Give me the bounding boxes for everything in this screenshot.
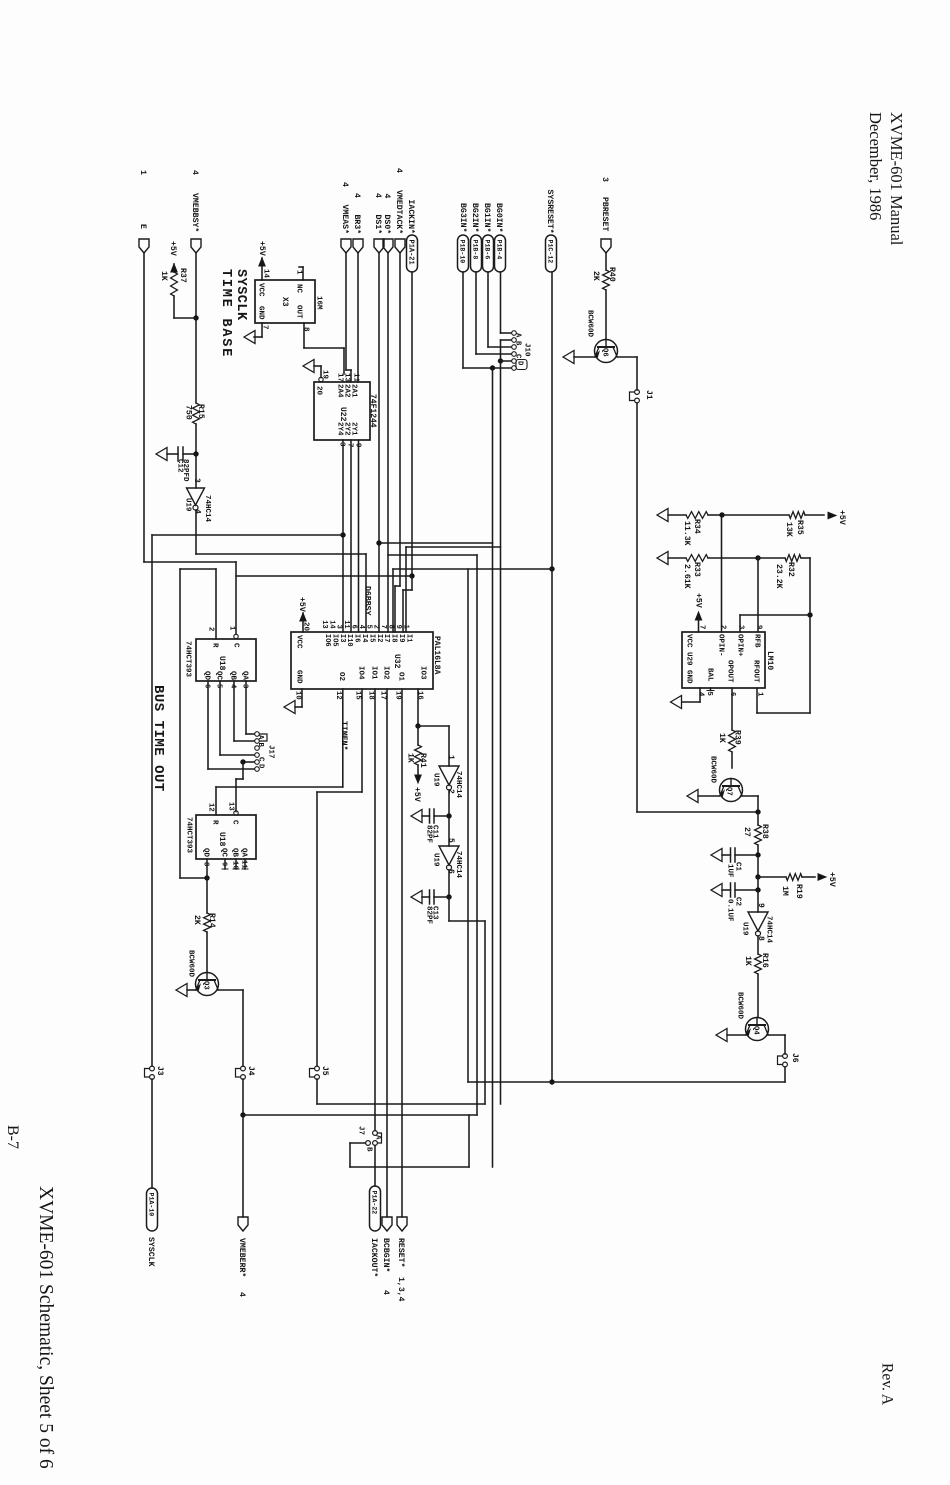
- svg-text:9: 9: [219, 862, 227, 866]
- svg-text:18: 18: [366, 691, 374, 700]
- svg-text:P1A-21: P1A-21: [407, 240, 415, 265]
- terminal PBRESET: [600, 177, 611, 253]
- U18 lower clock bubble: [234, 811, 238, 815]
- wire C1 node down: [756, 855, 761, 880]
- svg-text:R: R: [210, 643, 218, 648]
- svg-text:U18: U18: [217, 832, 226, 847]
- ground for R34: [657, 509, 668, 522]
- svg-text:+5V: +5V: [837, 510, 846, 525]
- wire U32 IO3 to R41: [416, 689, 450, 766]
- svg-text:A: A: [256, 735, 264, 740]
- svg-text:2: 2: [206, 627, 214, 631]
- svg-text:74HC14: 74HC14: [454, 771, 462, 799]
- svg-text:4: 4: [381, 1290, 390, 1295]
- svg-text:U18: U18: [217, 656, 226, 671]
- svg-text:GND: GND: [684, 670, 692, 684]
- svg-text:10: 10: [293, 691, 301, 700]
- wire Q4 to J6: [768, 1035, 785, 1054]
- wire J10 row B to row D chain: [498, 340, 511, 1104]
- svg-text:+5V: +5V: [168, 241, 177, 256]
- wire Q6 to J1: [618, 357, 638, 390]
- terminal SYSRESET* with connector P1C-12: [545, 190, 557, 273]
- svg-text:QA: QA: [239, 848, 247, 858]
- resistor R33 2.61K: [668, 555, 761, 589]
- svg-text:TIME BASE: TIME BASE: [218, 269, 233, 358]
- svg-text:R16: R16: [760, 953, 769, 968]
- terminal VMEDTACK*: [394, 168, 405, 253]
- svg-text:QB: QB: [228, 671, 236, 681]
- wire U18 upper reset loop: [180, 569, 216, 881]
- svg-text:4: 4: [373, 193, 382, 198]
- wire J10 chain down to U32: [377, 368, 501, 1167]
- svg-text:I1: I1: [404, 634, 412, 642]
- svg-text:J4: J4: [246, 1066, 255, 1076]
- ground for C12: [156, 448, 167, 461]
- svg-text:P1B-6: P1B-6: [484, 240, 491, 260]
- svg-text:R: R: [210, 820, 218, 825]
- power +5V right of R35: [828, 510, 846, 525]
- svg-text:VCC: VCC: [684, 634, 692, 648]
- svg-text:U19: U19: [183, 498, 191, 512]
- svg-text:2K: 2K: [192, 915, 201, 925]
- svg-text:GND: GND: [256, 306, 264, 320]
- power +5V for U29: [694, 593, 703, 632]
- U18 upper pin numbers: [202, 626, 248, 689]
- svg-text:3: 3: [337, 442, 345, 447]
- svg-text:+5V: +5V: [412, 787, 421, 802]
- wire SYSRESET* down: [550, 272, 555, 1085]
- svg-text:OPOUT: OPOUT: [725, 660, 733, 683]
- svg-text:RFOUT: RFOUT: [751, 660, 759, 683]
- U32 bottom pins: [293, 666, 426, 700]
- svg-text:A: A: [373, 1135, 381, 1140]
- svg-text:4: 4: [382, 194, 391, 199]
- title BUS TIME OUT: [150, 685, 166, 792]
- svg-text:I10: I10: [345, 634, 353, 647]
- capacitor C13 82PF: [422, 890, 449, 925]
- svg-text:6: 6: [202, 684, 210, 688]
- svg-text:J17: J17: [266, 745, 274, 759]
- wire VMEAS* to U22: [346, 253, 351, 382]
- jumper J6: [778, 1053, 800, 1067]
- terminal BR3*: [352, 193, 363, 253]
- wire U22 2Y1 to U32: [358, 440, 360, 632]
- terminal BG2IN* with connector P1B-8: [470, 203, 482, 272]
- ground for Q6: [563, 351, 596, 364]
- svg-text:GND: GND: [294, 670, 302, 684]
- svg-text:B: B: [364, 1147, 372, 1152]
- svg-text:P1B-4: P1B-4: [496, 240, 503, 260]
- svg-text:XVME-601 Manual: XVME-601 Manual: [887, 112, 906, 246]
- inverter U19a 74HC14: [183, 478, 211, 523]
- wire J17 tap to U18 lower clock: [236, 760, 254, 812]
- op-amp U29 LM10: [682, 632, 774, 688]
- page header: manual title: [866, 112, 906, 246]
- page caption: sheet title: [35, 1186, 56, 1469]
- svg-text:C: C: [256, 757, 264, 762]
- svg-text:I5: I5: [367, 634, 375, 642]
- svg-text:Rev. A: Rev. A: [878, 1363, 895, 1406]
- svg-text:QC: QC: [214, 671, 222, 681]
- U22 output pin numbers: [337, 442, 361, 448]
- svg-text:QB: QB: [230, 848, 238, 858]
- svg-text:2.61K: 2.61K: [682, 564, 691, 589]
- svg-text:2Y2: 2Y2: [342, 422, 350, 436]
- svg-text:DS0*: DS0*: [382, 215, 392, 235]
- svg-text:5: 5: [446, 838, 455, 843]
- resistor R15 750: [184, 403, 206, 488]
- wire U32 IO1 to J7: [374, 689, 376, 1131]
- svg-text:13: 13: [342, 373, 350, 383]
- svg-text:7: 7: [345, 443, 353, 448]
- svg-text:SYSCLK: SYSCLK: [233, 269, 248, 321]
- capacitor C2 0.1UF: [722, 877, 761, 922]
- svg-text:20: 20: [314, 386, 322, 396]
- svg-text:BCW60D: BCW60D: [708, 756, 716, 784]
- power +5V for R37: [168, 241, 177, 272]
- terminal BG0IN* with connector P1B-4: [494, 203, 506, 272]
- svg-text:SYSRESET*: SYSRESET*: [545, 190, 555, 234]
- X3 pin 8 output wire: [301, 323, 344, 374]
- svg-text:TIMEN*: TIMEN*: [339, 721, 349, 751]
- terminal IACKIN* with connector P1A-21: [406, 200, 418, 273]
- svg-text:16: 16: [415, 691, 423, 700]
- jumper J5: [310, 1066, 330, 1079]
- svg-text:BCW60D: BCW60D: [186, 950, 194, 978]
- svg-text:R33: R33: [692, 562, 701, 577]
- svg-text:2A1: 2A1: [349, 384, 357, 398]
- svg-text:74F1244: 74F1244: [368, 394, 377, 428]
- U29 BAL stub: [707, 688, 714, 691]
- terminal DS1*: [373, 193, 384, 253]
- jumper block J17: [255, 732, 275, 772]
- terminal VMEAS*: [340, 182, 351, 253]
- svg-text:17: 17: [378, 691, 386, 700]
- svg-text:NC: NC: [294, 284, 302, 294]
- U32 GND pin ground: [284, 689, 302, 714]
- svg-text:E: E: [138, 224, 147, 229]
- svg-text:VMEBERR*: VMEBERR*: [237, 1238, 247, 1277]
- wire reset branch down: [468, 569, 552, 1082]
- wire QC to J17: [220, 681, 254, 755]
- wire DS1* to U32: [378, 253, 380, 632]
- svg-text:IO3: IO3: [418, 666, 426, 680]
- svg-text:15: 15: [353, 691, 361, 700]
- ground for C1: [711, 849, 722, 862]
- wire QA to J17: [246, 681, 254, 734]
- wire RFB node: [757, 558, 759, 632]
- svg-text:December, 1986: December, 1986: [866, 112, 885, 220]
- svg-text:74HCT393: 74HCT393: [184, 817, 192, 854]
- buffer U22 74F1244: [314, 382, 377, 440]
- svg-text:+5V: +5V: [257, 241, 266, 256]
- svg-text:IO5: IO5: [330, 634, 338, 647]
- U32 pin 20 +5V: [297, 597, 309, 632]
- svg-text:R14: R14: [207, 913, 216, 928]
- svg-text:R37: R37: [178, 268, 187, 283]
- svg-text:16M: 16M: [314, 296, 322, 310]
- svg-text:RFB: RFB: [752, 634, 760, 648]
- svg-text:I6: I6: [353, 634, 361, 642]
- U18 upper clock bubble: [234, 634, 238, 638]
- svg-text:Q3: Q3: [201, 981, 209, 990]
- svg-text:9: 9: [394, 625, 402, 629]
- svg-text:4: 4: [190, 170, 199, 175]
- wire DS0* to U32: [387, 253, 389, 632]
- svg-text:750: 750: [184, 405, 193, 420]
- svg-text:VMEAS*: VMEAS*: [340, 205, 350, 235]
- svg-text:U32: U32: [392, 654, 401, 669]
- svg-text:BG0IN*: BG0IN*: [494, 203, 504, 233]
- wire J6 to SYSRESET line: [552, 1067, 785, 1082]
- power +5V for X3: [257, 241, 269, 280]
- svg-text:13: 13: [320, 620, 328, 628]
- wire BG1IN* to J10: [488, 272, 511, 347]
- ground for R33: [657, 552, 668, 565]
- wire inverter to C11 node: [447, 790, 452, 819]
- svg-text:OPIN-: OPIN-: [716, 634, 724, 657]
- svg-text:J5: J5: [320, 1066, 329, 1076]
- wire QB to J17: [234, 681, 254, 741]
- svg-text:1UF: 1UF: [725, 864, 733, 878]
- oscillator X3 16M: [255, 280, 322, 323]
- wire QD lower to R14: [206, 859, 208, 913]
- capacitor C11 82PF: [422, 809, 449, 844]
- svg-text:R38: R38: [760, 824, 769, 839]
- ground for C13: [411, 891, 422, 904]
- svg-text:1K: 1K: [717, 733, 726, 743]
- svg-text:6: 6: [350, 625, 358, 629]
- svg-text:14: 14: [261, 269, 269, 279]
- resistor R14 2K: [192, 913, 216, 972]
- svg-text:4: 4: [340, 182, 349, 187]
- wire C13 node to J5 line: [449, 897, 485, 1104]
- svg-text:OPIN+: OPIN+: [735, 634, 743, 657]
- svg-text:BG2IN*: BG2IN*: [470, 203, 480, 233]
- svg-text:BG1IN*: BG1IN*: [482, 203, 492, 233]
- svg-text:J7: J7: [356, 1126, 364, 1135]
- wire R34 node to OPIN-: [721, 515, 723, 632]
- svg-text:+5V: +5V: [694, 593, 703, 608]
- svg-text:2Y4: 2Y4: [335, 422, 343, 436]
- svg-text:7: 7: [379, 625, 387, 629]
- svg-text:I2: I2: [375, 634, 383, 642]
- svg-text:IO4: IO4: [356, 666, 364, 680]
- svg-text:C2: C2: [733, 897, 741, 907]
- svg-text:8: 8: [387, 625, 395, 629]
- ground for Q7: [687, 790, 719, 803]
- wire QD to J17: [208, 681, 254, 769]
- jumper J4: [236, 1066, 256, 1079]
- svg-text:8: 8: [301, 327, 309, 332]
- wire BR3* to U22: [357, 253, 359, 382]
- counter U18 74HCT393 upper: [183, 639, 256, 681]
- wire U32 pin1 feedback: [236, 575, 412, 577]
- svg-text:P1B-10: P1B-10: [459, 240, 466, 264]
- wire VMEDTACK* to U32: [395, 253, 400, 632]
- page footer: revision: [878, 1363, 895, 1406]
- node E terminal: [138, 170, 149, 253]
- svg-text:4: 4: [237, 1292, 246, 1297]
- PAL U32 PAL16L8A: [291, 632, 441, 689]
- power +5V below R41: [412, 775, 421, 802]
- wire J7 to P1A-22: [374, 1146, 376, 1187]
- svg-text:I8: I8: [390, 634, 398, 642]
- svg-text:I7: I7: [382, 634, 390, 642]
- svg-text:82PF: 82PF: [424, 906, 432, 925]
- svg-text:2: 2: [446, 789, 455, 794]
- page number B-7: [4, 1125, 21, 1149]
- resistor R41 1K: [406, 726, 428, 774]
- svg-text:U29: U29: [684, 652, 692, 666]
- svg-text:QC: QC: [219, 848, 227, 858]
- jumper J1: [630, 390, 654, 403]
- svg-text:IACKOUT*: IACKOUT*: [369, 1238, 379, 1277]
- svg-text:2Y1: 2Y1: [349, 422, 357, 436]
- svg-text:27: 27: [742, 827, 751, 837]
- svg-text:BAL: BAL: [705, 668, 713, 682]
- svg-text:3: 3: [600, 177, 609, 182]
- U32 top pin labels: [320, 620, 413, 646]
- svg-text:1K: 1K: [743, 956, 752, 966]
- inverter U19c 74HC14: [431, 816, 462, 879]
- U22 pin 19 enable ground: [303, 360, 328, 382]
- capacitor C1 1UF: [722, 848, 758, 878]
- svg-text:QD: QD: [202, 671, 210, 681]
- svg-text:BCW60D: BCW60D: [585, 310, 593, 338]
- ground for C11: [411, 810, 422, 823]
- svg-text:R35: R35: [795, 520, 804, 535]
- jumper J7: [356, 1126, 381, 1152]
- svg-text:82PF: 82PF: [424, 825, 432, 844]
- svg-text:IO2: IO2: [381, 666, 389, 680]
- svg-text:2A2: 2A2: [342, 384, 350, 398]
- wire SYSRESET* branch to U32: [393, 569, 552, 632]
- resistor R37 1K: [159, 268, 196, 318]
- svg-text:B: B: [256, 743, 264, 748]
- wire D6BBSY net: [196, 510, 372, 632]
- resistor R38 27: [742, 812, 769, 858]
- U29 pin numbers: [696, 625, 762, 697]
- svg-text:D6BBSY: D6BBSY: [363, 586, 372, 616]
- svg-text:QA: QA: [240, 671, 248, 681]
- svg-text:R15: R15: [196, 404, 205, 419]
- svg-text:11: 11: [342, 620, 350, 628]
- svg-text:PAL16L8A: PAL16L8A: [432, 636, 441, 675]
- U18 lower nc stubs: [222, 859, 248, 869]
- connector P1A-10 SYSCLK: [146, 1188, 158, 1267]
- svg-text:4: 4: [352, 193, 361, 198]
- svg-text:9: 9: [754, 625, 762, 629]
- terminal RESET*: [396, 1217, 407, 1302]
- wire TIMEN*: [216, 689, 349, 815]
- svg-text:11: 11: [351, 373, 359, 383]
- svg-text:5: 5: [705, 692, 713, 696]
- ground for Q3: [176, 984, 196, 997]
- svg-text:B: B: [513, 341, 521, 346]
- svg-text:74HC14: 74HC14: [454, 851, 462, 879]
- svg-text:P1B-8: P1B-8: [472, 240, 479, 260]
- svg-text:23.2K: 23.2K: [774, 564, 783, 589]
- svg-text:U19: U19: [740, 922, 748, 936]
- svg-text:3: 3: [736, 625, 744, 629]
- svg-text:+5V: +5V: [297, 597, 306, 612]
- svg-text:2: 2: [372, 625, 380, 629]
- svg-text:RESET*: RESET*: [396, 1238, 406, 1268]
- wire Q7 to R38 node: [741, 796, 758, 812]
- svg-text:17: 17: [335, 373, 343, 382]
- svg-text:R41: R41: [418, 753, 427, 768]
- svg-text:C1: C1: [733, 862, 741, 872]
- svg-text:82PFD: 82PFD: [181, 459, 189, 482]
- resistor R35 13K: [722, 512, 824, 537]
- svg-text:5: 5: [214, 684, 222, 688]
- resistor R16 1K: [743, 936, 769, 1017]
- svg-text:1: 1: [401, 625, 409, 629]
- svg-text:O1: O1: [396, 672, 404, 682]
- jumper J3: [145, 1066, 165, 1079]
- svg-text:R32: R32: [786, 562, 795, 577]
- svg-text:BCW60D: BCW60D: [735, 992, 743, 1020]
- inverter U19b 74HC14: [431, 755, 462, 799]
- resistor R39 1K: [717, 688, 742, 768]
- svg-text:3: 3: [192, 478, 201, 483]
- svg-text:3: 3: [240, 684, 248, 688]
- wire J4 loop to J7: [243, 1115, 477, 1167]
- svg-text:P1A-22: P1A-22: [371, 1191, 378, 1215]
- svg-text:7: 7: [697, 625, 705, 629]
- svg-text:J1: J1: [644, 390, 653, 400]
- svg-text:VCC: VCC: [294, 635, 302, 649]
- svg-text:Q4: Q4: [751, 1026, 759, 1035]
- svg-text:9: 9: [756, 903, 765, 908]
- svg-text:10: 10: [230, 861, 238, 870]
- svg-text:D: D: [256, 764, 264, 769]
- svg-text:QD: QD: [201, 848, 209, 858]
- svg-text:13K: 13K: [784, 522, 793, 537]
- wire Q3 to J4: [218, 990, 243, 1066]
- svg-text:I3: I3: [338, 634, 346, 642]
- transistor Q3 BCW60D: [186, 950, 218, 996]
- svg-text:1: 1: [138, 170, 147, 175]
- svg-text:1: 1: [294, 270, 302, 275]
- wire J4 to VMEBERR*: [241, 1079, 246, 1217]
- svg-text:DS1*: DS1*: [373, 215, 383, 235]
- svg-text:3: 3: [335, 625, 343, 629]
- wire BG3IN* to J10: [463, 272, 511, 371]
- wire bus branch down: [388, 555, 477, 1115]
- svg-text:2A4: 2A4: [335, 384, 343, 398]
- wire U32 IO2 to BCBGIN*: [386, 689, 388, 1217]
- svg-text:0.1UF: 0.1UF: [725, 899, 733, 922]
- svg-text:13: 13: [226, 802, 234, 811]
- svg-text:A: A: [513, 333, 521, 338]
- svg-text:1,3,4: 1,3,4: [396, 1277, 405, 1302]
- svg-text:U22: U22: [338, 407, 347, 422]
- svg-text:2K: 2K: [591, 271, 600, 281]
- resistor R34 11.3K: [668, 512, 725, 546]
- svg-text:SYSCLK: SYSCLK: [146, 1237, 155, 1267]
- svg-text:IO6: IO6: [323, 634, 331, 647]
- svg-text:BR3*: BR3*: [352, 215, 362, 235]
- inverter U19d 74HC14: [740, 890, 772, 944]
- wire IO4 to J5: [317, 689, 362, 1066]
- svg-text:C: C: [513, 354, 521, 359]
- svg-text:X3: X3: [280, 297, 289, 307]
- terminal DS0*: [382, 194, 393, 254]
- resistor R32 23.2K: [758, 555, 810, 589]
- svg-text:O2: O2: [337, 672, 345, 682]
